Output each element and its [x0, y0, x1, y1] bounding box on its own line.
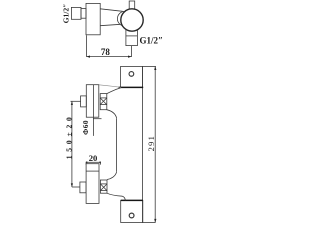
svg-text:G1/2″: G1/2″ — [140, 36, 164, 46]
dim 78 line — [86, 56, 131, 58]
svg-text:G1/2″: G1/2″ — [62, 4, 71, 24]
dim 20 line — [86, 161, 101, 163]
body curve below top neck — [107, 110, 117, 119]
top bracket screw hole — [129, 72, 134, 77]
dim 291 extension top — [154, 65, 157, 67]
body right edge — [116, 118, 118, 172]
bottom knob neck X lower line — [100, 190, 107, 192]
dim 20 end dots — [86, 162, 101, 164]
dim 78 arrow left — [86, 56, 90, 58]
cone to knob (top line) — [100, 9, 122, 12]
dim 291 arrow top — [154, 66, 156, 70]
top bracket bottom edge (thick) — [119, 86, 144, 88]
cone to knob (bottom line) — [100, 24, 122, 26]
top knob handle inner line — [92, 85, 94, 118]
svg-text:20: 20 — [89, 153, 98, 163]
knob circle (top view) — [121, 9, 143, 31]
dim 78 arrow right — [128, 56, 132, 58]
bottom knob neck — [100, 180, 107, 193]
bottom knob neck X diagonals — [100, 184, 107, 191]
top knob neck X upper line — [100, 97, 107, 99]
bottom bracket screw hole — [129, 213, 134, 218]
bottom knob end cap — [80, 182, 86, 193]
top stem — [129, 1, 135, 10]
dim 78 extension right — [131, 46, 133, 57]
top knob end cap — [81, 96, 87, 107]
body top curve to plate — [107, 87, 122, 93]
dim 20 tick right — [99, 162, 101, 164]
top knob: dim 150 extension upper — [71, 100, 81, 102]
body shoulder edge (faint) — [99, 85, 121, 88]
outlet pipe (top view) — [126, 28, 137, 46]
svg-text:291: 291 — [147, 135, 156, 151]
dim 150 arrow top — [71, 101, 73, 105]
inlet nut — [81, 9, 86, 19]
svg-text:150±20: 150±20 — [64, 113, 73, 159]
bottom knob handle joint line — [86, 170, 99, 172]
phi60 leader line — [92, 117, 94, 136]
valve body (top view) — [86, 3, 100, 34]
top knob neck — [100, 94, 107, 110]
bottom knob neck X upper line — [100, 183, 107, 185]
bottom knob handle — [86, 164, 99, 204]
phi60 leader tick — [93, 118, 101, 120]
body curve below bottom neck to plate — [107, 193, 125, 200]
svg-text:78: 78 — [101, 47, 111, 57]
svg-text:Φ60: Φ60 — [81, 120, 90, 135]
top knob neck X lower line — [100, 104, 107, 106]
bottom bracket plate — [121, 200, 143, 222]
dim 291 arrow bottom — [154, 219, 156, 223]
dim 150 extension lower — [72, 186, 80, 188]
body curve above bottom neck — [107, 172, 117, 180]
dim 20 tick left — [85, 162, 87, 164]
top bracket plate — [121, 66, 143, 87]
dim 150 arrow bottom — [71, 183, 73, 187]
collar ring — [117, 11, 132, 26]
top knob neck X diagonals — [100, 98, 107, 105]
bottom bracket top edge (thick) — [121, 199, 143, 201]
outlet pipe joint line — [126, 35, 137, 37]
dim 78 extension left — [85, 35, 87, 56]
inlet thread fitting — [71, 7, 81, 19]
top knob handle — [86, 85, 99, 118]
wall bar — [143, 66, 156, 222]
dim 150+-20 line — [71, 101, 73, 187]
